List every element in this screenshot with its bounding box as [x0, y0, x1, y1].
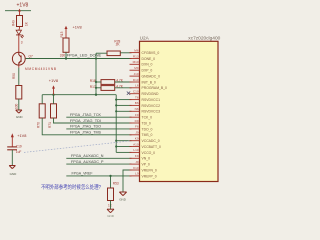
- svg-text:FPGA_JTAG_TMS: FPGA_JTAG_TMS: [70, 131, 102, 135]
- svg-text:K9: K9: [135, 154, 139, 158]
- svg-text:FPGA_JTAG_TDI: FPGA_JTAG_TDI: [70, 119, 101, 123]
- pin D9 TDI_0: [130, 119, 151, 126]
- resistor R49: [17, 16, 23, 27]
- svg-text:R17: R17: [90, 85, 96, 89]
- wire: [11, 150, 13, 166]
- resistor R50: [16, 86, 22, 100]
- pin L10 VCCO_0: [130, 148, 156, 155]
- svg-text:3: 3: [21, 41, 23, 45]
- svg-text:GNDADC_0: GNDADC_0: [142, 75, 161, 79]
- svg-text:TCK_0: TCK_0: [142, 116, 153, 120]
- pin N6 RSVDVCC3: [130, 107, 161, 114]
- junction: [109, 175, 111, 177]
- ground GND left: [16, 110, 24, 119]
- pin B6 RSVDVCC2: [130, 101, 161, 108]
- svg-text:INIT_B_0: INIT_B_0: [142, 80, 156, 84]
- pin F6 TDO_0: [130, 125, 153, 132]
- power +1V8 C19 arrow: [11, 133, 14, 147]
- pin D10 INIT_B_0: [130, 78, 156, 85]
- wire R70 to TMS: [42, 118, 131, 135]
- wire VREFP: [66, 175, 131, 177]
- wire: [110, 176, 112, 188]
- svg-text:TDO_0: TDO_0: [142, 127, 153, 131]
- power +1V8 rail arrow: [52, 85, 55, 94]
- wire: [19, 27, 21, 29]
- pin F9 TCK_0: [130, 113, 153, 120]
- pin M9 DXP_0: [130, 66, 153, 73]
- svg-text:M9: M9: [134, 66, 139, 70]
- svg-text:B6: B6: [135, 101, 139, 105]
- wire: [41, 95, 43, 104]
- pin C10 RSVDGND: [130, 90, 160, 97]
- wire top-left horizontal bar: [5, 10, 31, 12]
- wire: [53, 95, 55, 104]
- svg-text:VCCO_0: VCCO_0: [142, 151, 156, 155]
- pin L6 PROGRAM_B_0: [130, 84, 168, 91]
- svg-text:R70: R70: [37, 122, 41, 128]
- wire: [96, 87, 101, 89]
- capacitor C19: [7, 145, 22, 154]
- resistor R53: [108, 188, 114, 201]
- svg-text:A10: A10: [133, 142, 139, 146]
- junction: [115, 145, 117, 147]
- pin J10 GNDADC_0: [130, 72, 161, 79]
- svg-text:K10: K10: [133, 166, 139, 170]
- svg-text:1uF: 1uF: [16, 150, 22, 154]
- resistor R17 PROGRAM_B pullup: [101, 86, 115, 91]
- junction: [115, 99, 117, 101]
- svg-text:DXN_0: DXN_0: [142, 63, 153, 67]
- wire to VCCO: [116, 151, 131, 153]
- svg-text:R50: R50: [12, 73, 16, 79]
- svg-text:xc7z020clg400: xc7z020clg400: [188, 36, 221, 41]
- svg-text:C19: C19: [16, 145, 22, 149]
- svg-text:T6: T6: [135, 95, 139, 99]
- svg-text:J10: J10: [134, 72, 139, 76]
- no-connect X on RSVDGND: [127, 92, 130, 95]
- svg-text:D10: D10: [133, 78, 139, 82]
- op-amp U2A FPGA body: [140, 41, 219, 181]
- resistor R18 INIT_B pullup: [101, 80, 115, 85]
- wire: [115, 87, 132, 89]
- svg-text:F9: F9: [135, 113, 139, 117]
- wire to VCCADC: [116, 140, 131, 142]
- transistor Q7: [12, 52, 56, 71]
- junction: [52, 94, 54, 96]
- svg-text:FPGA_AUXADC_P: FPGA_AUXADC_P: [71, 160, 104, 164]
- wire: [18, 35, 20, 45]
- svg-text:D9: D9: [135, 119, 139, 123]
- svg-text:DONE_0: DONE_0: [142, 57, 156, 61]
- resistor R70: [39, 104, 45, 118]
- pin K9 VN_0: [130, 154, 151, 161]
- power +1V8 mid arrow: [65, 26, 68, 38]
- wire R71 to TDI: [54, 118, 132, 123]
- svg-text:R13: R13: [60, 31, 64, 37]
- resistor R71: [51, 104, 57, 118]
- svg-text:GND: GND: [10, 172, 18, 176]
- junction: [95, 87, 97, 89]
- svg-text:FPGA_JTAG_TDO: FPGA_JTAG_TDO: [70, 125, 101, 129]
- svg-text:VN_0: VN_0: [142, 157, 151, 161]
- junction: [65, 57, 67, 59]
- pin K9 VCCADC_0: [130, 137, 160, 144]
- svg-text:+1V8: +1V8: [17, 3, 29, 9]
- svg-text:RSVDVCC3: RSVDVCC3: [142, 110, 161, 114]
- wire vertical to rail: [95, 53, 97, 94]
- pin L9 VREFP_0: [130, 172, 157, 179]
- pin M6 CFGBVS_0: [130, 48, 160, 55]
- ground GND under R53: [107, 209, 115, 218]
- svg-text:+1V8: +1V8: [49, 78, 58, 83]
- junction: [115, 104, 117, 106]
- pin K10 VREFN_0: [130, 166, 157, 173]
- svg-text:GND: GND: [119, 198, 127, 202]
- wire +1V8 rail vertical: [115, 95, 117, 153]
- wire: [65, 52, 67, 58]
- wire TDO: [66, 128, 131, 130]
- svg-text:L6: L6: [135, 84, 139, 88]
- wire VREFN to GND: [123, 170, 132, 192]
- svg-text:R13: R13: [133, 54, 139, 58]
- pin A10 VCCBATT_0: [130, 142, 161, 149]
- svg-text:100: 100: [15, 103, 19, 109]
- svg-text:PROGRAM_B_0: PROGRAM_B_0: [142, 86, 168, 90]
- svg-text:K9: K9: [135, 137, 139, 141]
- svg-text:R49: R49: [12, 20, 16, 26]
- wire: [110, 201, 112, 210]
- svg-text:CFGBVS_0: CFGBVS_0: [142, 51, 160, 55]
- svg-text:RSVDVCC2: RSVDVCC2: [142, 104, 161, 108]
- svg-text:F6: F6: [135, 125, 139, 129]
- svg-text:U2A: U2A: [140, 36, 150, 41]
- wire TCK: [66, 116, 131, 118]
- svg-text:MMCM4401VNB: MMCM4401VNB: [25, 67, 56, 71]
- dashed annotation line: [24, 141, 131, 153]
- svg-text:TDI_0: TDI_0: [142, 121, 151, 125]
- pin J9 VP_0: [130, 160, 150, 167]
- svg-text:VREFN_0: VREFN_0: [142, 168, 157, 172]
- svg-text:J9: J9: [135, 131, 139, 135]
- power +1V8 top-left arrow: [18, 9, 21, 16]
- ground GND VREFN: [119, 192, 127, 202]
- wire emitter: [18, 65, 20, 68]
- svg-text:TMS_0: TMS_0: [142, 133, 153, 137]
- LED D2: [16, 30, 24, 38]
- svg-text:N6: N6: [135, 107, 139, 111]
- svg-text:J9: J9: [135, 160, 139, 164]
- svg-text:VP_0: VP_0: [142, 163, 150, 167]
- svg-text:VCCBATT_0: VCCBATT_0: [142, 145, 161, 149]
- svg-text:C10: C10: [133, 90, 139, 94]
- pin J9 TMS_0: [130, 131, 153, 138]
- wire +1V8 rail horizontal: [42, 94, 116, 96]
- svg-text:M6: M6: [134, 48, 139, 52]
- junction: [115, 110, 117, 112]
- svg-text:+1V8: +1V8: [73, 25, 82, 30]
- wire to VCCBATT: [116, 146, 131, 148]
- wire: [18, 99, 20, 110]
- wire: [96, 81, 101, 83]
- svg-text:330: 330: [60, 54, 66, 58]
- svg-text:FPGA_VREF: FPGA_VREF: [72, 172, 93, 176]
- resistor R13 pullup DONE: [63, 38, 69, 52]
- pin T6 RSVDVCC1: [130, 95, 161, 102]
- wire to RSVDVCC1: [116, 99, 131, 101]
- junction: [95, 81, 97, 83]
- svg-text:VREFP_0: VREFP_0: [142, 174, 157, 178]
- wire VN: [66, 157, 131, 159]
- svg-text:DXP_0: DXP_0: [142, 69, 153, 73]
- wire to RSVDVCC3: [116, 110, 131, 112]
- svg-text:不明外部参考的时候怎么处理?: 不明外部参考的时候怎么处理?: [41, 183, 101, 191]
- svg-text:FPGA_LED_DONE: FPGA_LED_DONE: [67, 53, 102, 57]
- svg-text:L10: L10: [133, 148, 138, 152]
- svg-text:GND: GND: [16, 115, 24, 119]
- junction: [95, 57, 97, 59]
- svg-text:R18: R18: [90, 79, 96, 83]
- svg-text:R71: R71: [48, 122, 52, 128]
- svg-text:GND: GND: [107, 214, 115, 218]
- svg-text:Q7: Q7: [29, 55, 33, 59]
- svg-text:FPGA_AUXADC_N: FPGA_AUXADC_N: [71, 154, 104, 158]
- wire: [115, 81, 132, 83]
- svg-text:L9: L9: [135, 172, 139, 176]
- junction: [115, 140, 117, 142]
- svg-text:RSVDGND: RSVDGND: [142, 92, 160, 96]
- junction: [95, 94, 97, 96]
- pin M10 DXN_0: [130, 60, 153, 67]
- resistor R12 CFGBVS pullup: [107, 51, 120, 56]
- pin R13 DONE_0: [130, 54, 156, 61]
- wire DONE net: [26, 58, 132, 60]
- ground GND C19: [9, 166, 17, 177]
- svg-text:M10: M10: [133, 60, 139, 64]
- svg-text:RSVDVCC1: RSVDVCC1: [142, 98, 161, 102]
- wire to RSVDVCC2: [116, 104, 131, 106]
- svg-text:+1V8: +1V8: [17, 133, 26, 138]
- wire: [120, 52, 131, 54]
- svg-text:R53: R53: [113, 182, 119, 186]
- svg-text:FPGA_JTAG_TCK: FPGA_JTAG_TCK: [70, 113, 102, 117]
- svg-text:VCCADC_0: VCCADC_0: [142, 139, 160, 143]
- wire VP: [66, 163, 131, 165]
- wire: [96, 52, 107, 54]
